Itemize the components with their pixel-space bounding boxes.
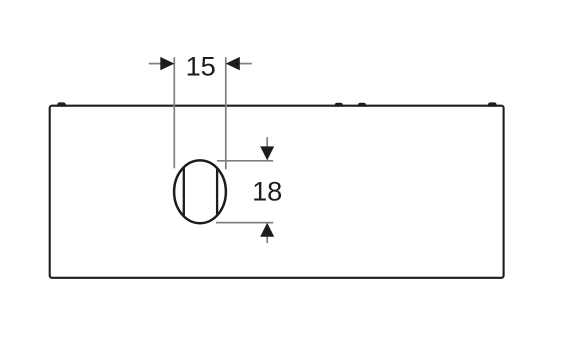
- clip tab 1 (top edge, left): [57, 102, 67, 106]
- leader line right of dim 15: [238, 63, 252, 65]
- extension line right of dim 15: [225, 57, 227, 169]
- clip tab 2 (top edge, middle-left): [334, 103, 344, 107]
- extension line left of dim 15: [173, 57, 175, 168]
- clip tab 3 (top edge, middle-right): [357, 103, 367, 107]
- grommet hole (ellipse): [174, 160, 226, 223]
- panel front view (furniture front): [50, 106, 504, 278]
- extension line bottom of dim 18: [216, 222, 273, 224]
- hole inner chord left: [183, 168, 185, 217]
- leader line left of dim 15: [149, 63, 163, 65]
- arrow left of dim 15 (points right): [160, 57, 174, 70]
- arrow right of dim 15 (points left): [226, 57, 240, 70]
- leader line below dim 18: [266, 237, 268, 244]
- arrow top of dim 18 (points down): [260, 146, 274, 160]
- arrow bottom of dim 18 (points up): [260, 223, 274, 237]
- svg-text:15: 15: [186, 50, 216, 81]
- leader line above dim 18: [266, 137, 268, 148]
- clip tab 4 (top edge, right): [487, 102, 497, 106]
- extension line top of dim 18: [217, 160, 273, 162]
- hole inner chord right: [216, 168, 218, 215]
- svg-text:18: 18: [252, 176, 282, 207]
